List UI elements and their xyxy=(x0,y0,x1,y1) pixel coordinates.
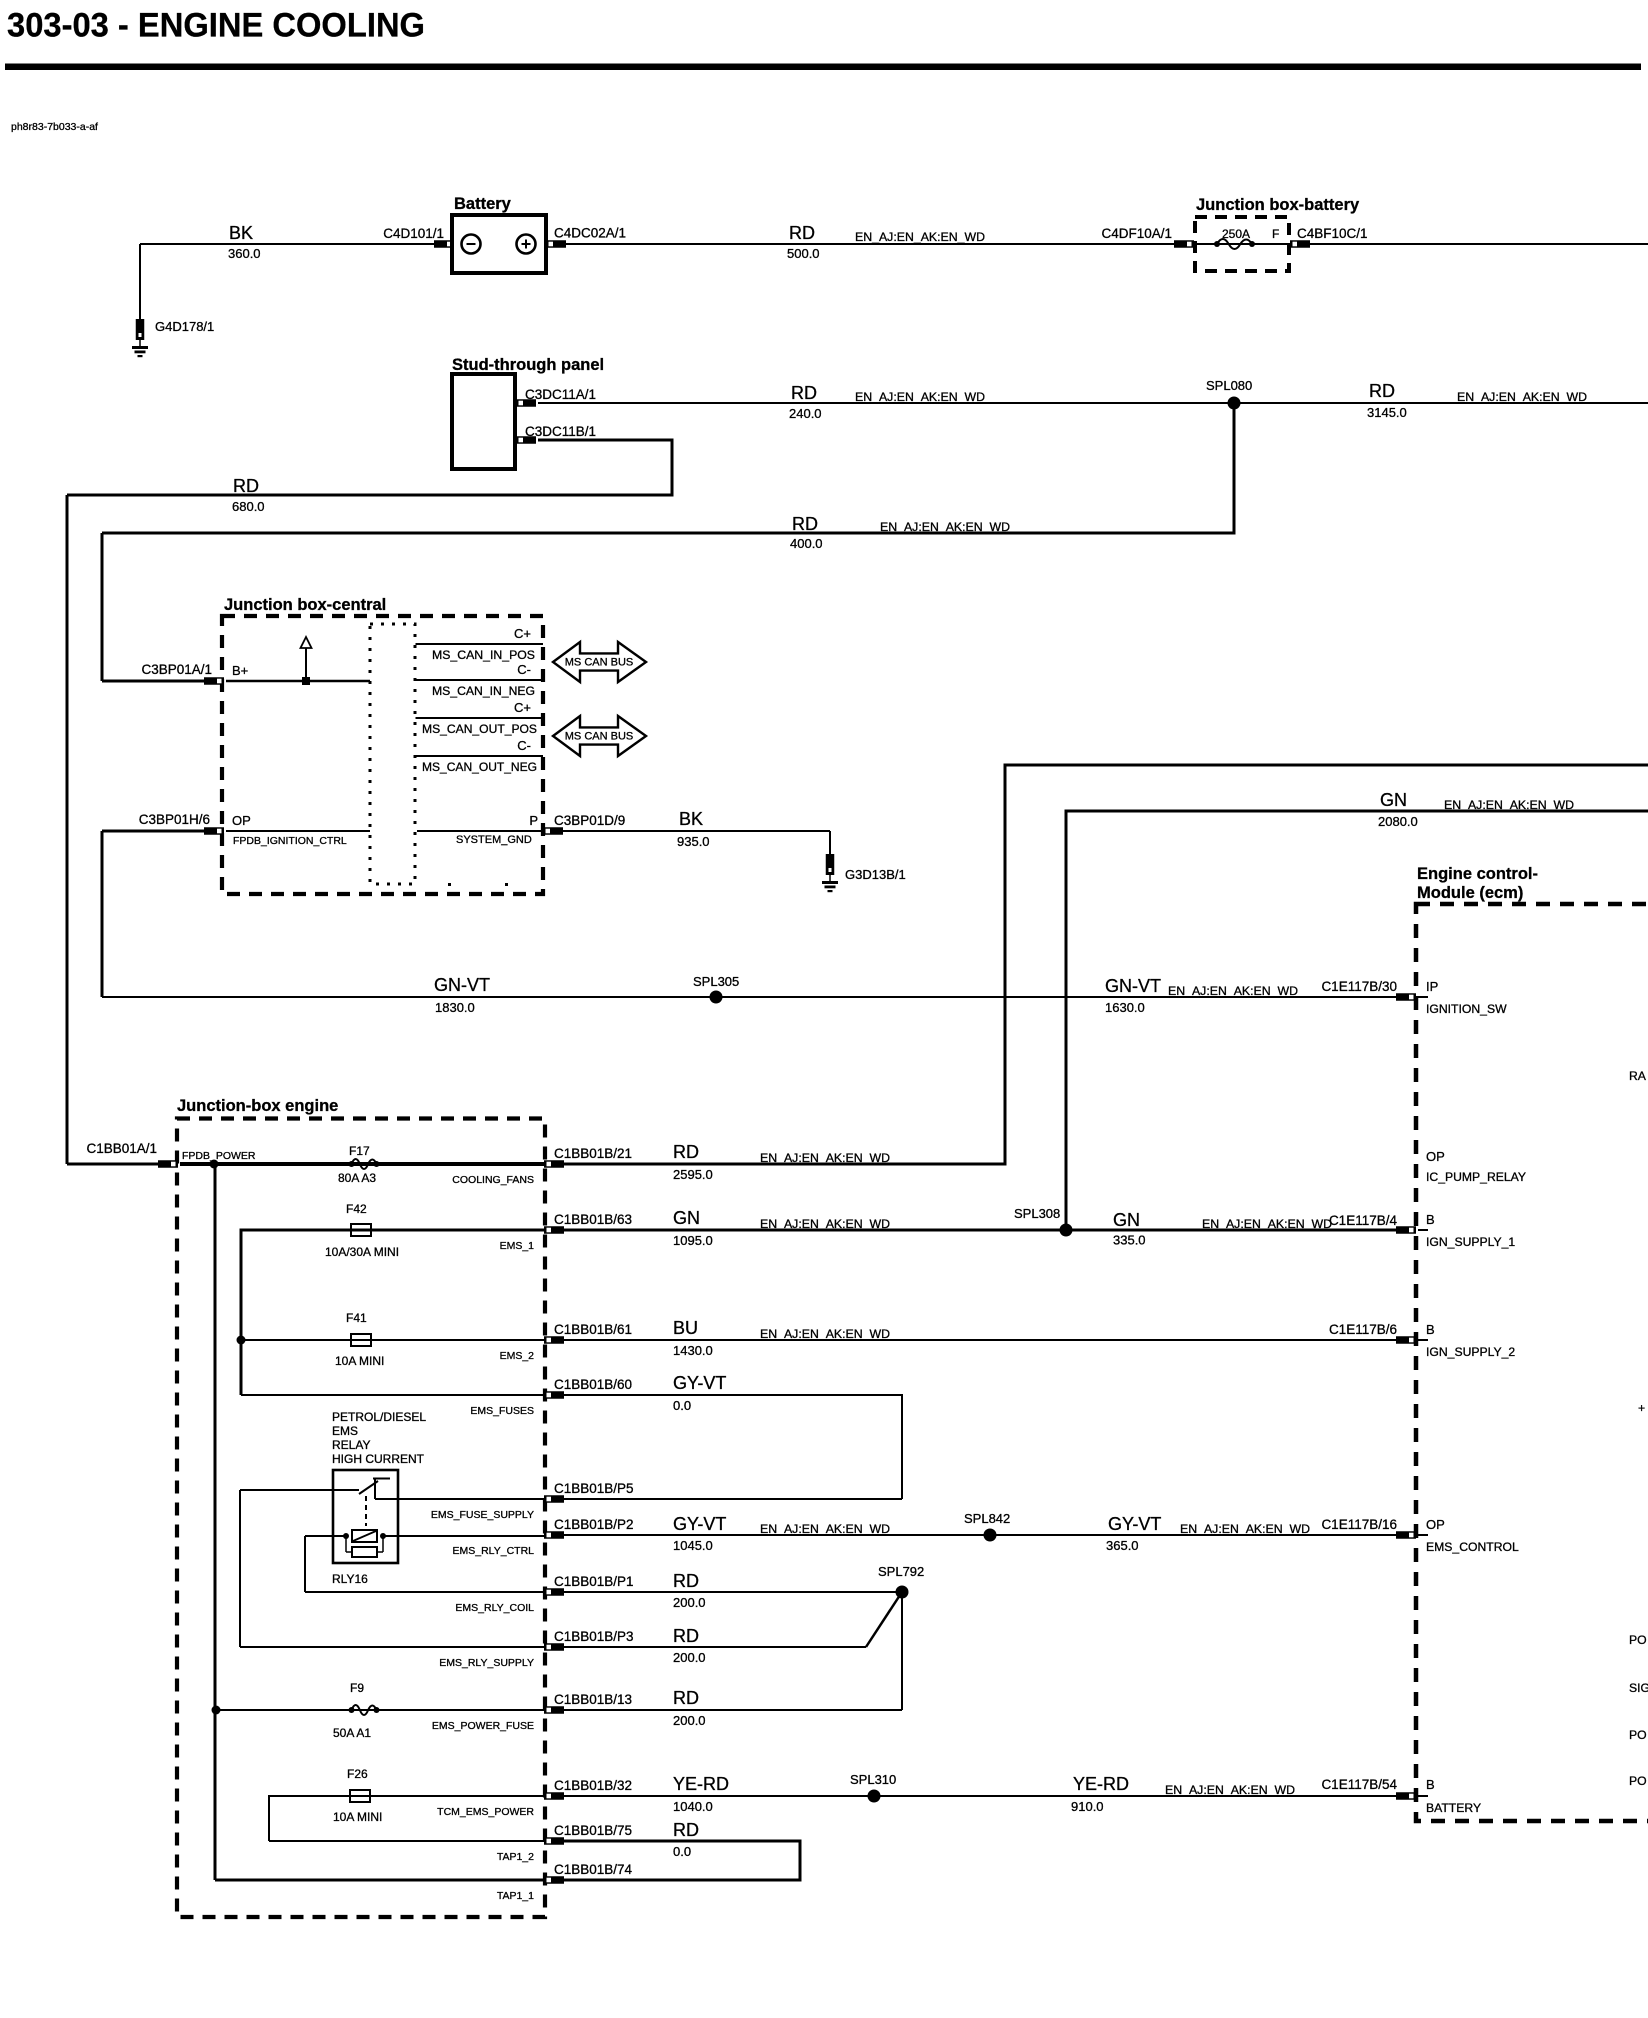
svg-text:IGNITION_SW: IGNITION_SW xyxy=(1426,1002,1507,1016)
svg-text:SPL305: SPL305 xyxy=(693,974,739,989)
svg-text:335.0: 335.0 xyxy=(1113,1233,1146,1248)
svg-text:RD: RD xyxy=(673,1688,699,1708)
svg-text:EMS_RLY_COIL: EMS_RLY_COIL xyxy=(455,1602,534,1614)
svg-text:200.0: 200.0 xyxy=(673,1650,706,1665)
svg-text:F: F xyxy=(1272,227,1279,241)
svg-text:1095.0: 1095.0 xyxy=(673,1233,713,1248)
svg-text:C4DF10A/1: C4DF10A/1 xyxy=(1101,226,1172,241)
svg-text:G3D13B/1: G3D13B/1 xyxy=(845,867,906,882)
svg-text:C1BB01B/60: C1BB01B/60 xyxy=(554,1377,632,1392)
svg-text:BK: BK xyxy=(229,223,253,243)
svg-text:GN: GN xyxy=(1113,1210,1140,1230)
svg-text:EMS_RLY_SUPPLY: EMS_RLY_SUPPLY xyxy=(439,1657,534,1669)
svg-text:2080.0: 2080.0 xyxy=(1378,814,1418,829)
svg-text:RELAY: RELAY xyxy=(332,1438,370,1452)
svg-text:C1E117B/4: C1E117B/4 xyxy=(1329,1213,1398,1228)
svg-text:C1BB01B/63: C1BB01B/63 xyxy=(554,1212,632,1227)
svg-text:YE-RD: YE-RD xyxy=(673,1774,729,1794)
svg-text:C3BP01D/9: C3BP01D/9 xyxy=(554,813,625,828)
svg-text:EN_AJ:EN_AK:EN_WD: EN_AJ:EN_AK:EN_WD xyxy=(855,390,985,404)
svg-text:Engine control-: Engine control- xyxy=(1417,865,1538,883)
svg-text:F9: F9 xyxy=(350,1681,364,1695)
svg-text:EMS_POWER_FUSE: EMS_POWER_FUSE xyxy=(432,1720,534,1732)
svg-text:Battery: Battery xyxy=(454,195,512,213)
svg-text:MS_CAN_IN_NEG: MS_CAN_IN_NEG xyxy=(432,684,535,698)
svg-text:C1BB01B/74: C1BB01B/74 xyxy=(554,1862,633,1877)
svg-text:RD: RD xyxy=(673,1571,699,1591)
svg-text:TAP1_2: TAP1_2 xyxy=(497,1851,534,1863)
svg-text:Junction box-central: Junction box-central xyxy=(224,596,386,614)
svg-text:PETROL/DIESEL: PETROL/DIESEL xyxy=(332,1410,426,1424)
svg-text:SPL792: SPL792 xyxy=(878,1564,924,1579)
svg-text:EMS_2: EMS_2 xyxy=(500,1350,535,1362)
svg-text:MS_CAN_OUT_POS: MS_CAN_OUT_POS xyxy=(422,722,537,736)
svg-text:SPL310: SPL310 xyxy=(850,1772,896,1787)
svg-text:GN-VT: GN-VT xyxy=(1105,976,1161,996)
svg-text:C1BB01B/75: C1BB01B/75 xyxy=(554,1823,632,1838)
svg-text:EN_AJ:EN_AK:EN_WD: EN_AJ:EN_AK:EN_WD xyxy=(855,230,985,244)
svg-text:C1BB01A/1: C1BB01A/1 xyxy=(86,1141,157,1156)
svg-text:RD: RD xyxy=(673,1820,699,1840)
svg-text:C-: C- xyxy=(517,738,531,753)
svg-text:C1BB01B/P5: C1BB01B/P5 xyxy=(554,1481,634,1496)
svg-text:0.0: 0.0 xyxy=(673,1398,691,1413)
svg-text:RD: RD xyxy=(789,223,815,243)
svg-text:IP: IP xyxy=(1426,979,1438,994)
svg-text:C3BP01A/1: C3BP01A/1 xyxy=(141,662,212,677)
svg-text:BK: BK xyxy=(679,809,703,829)
svg-text:IGN_SUPPLY_1: IGN_SUPPLY_1 xyxy=(1426,1235,1515,1249)
svg-text:RLY16: RLY16 xyxy=(332,1572,368,1586)
svg-text:3145.0: 3145.0 xyxy=(1367,405,1407,420)
svg-text:Stud-through panel: Stud-through panel xyxy=(452,356,604,374)
svg-text:SYSTEM_GND: SYSTEM_GND xyxy=(456,834,532,846)
svg-text:EN_AJ:EN_AK:EN_WD: EN_AJ:EN_AK:EN_WD xyxy=(1180,1522,1310,1536)
svg-text:C-: C- xyxy=(517,662,531,677)
svg-text:PO: PO xyxy=(1629,1728,1647,1742)
svg-text:MS_CAN_IN_POS: MS_CAN_IN_POS xyxy=(432,648,535,662)
svg-text:C3BP01H/6: C3BP01H/6 xyxy=(139,812,210,827)
svg-text:1045.0: 1045.0 xyxy=(673,1538,713,1553)
svg-text:SPL080: SPL080 xyxy=(1206,378,1252,393)
svg-text:250A: 250A xyxy=(1222,227,1250,241)
svg-text:F26: F26 xyxy=(347,1767,368,1781)
svg-text:B: B xyxy=(1426,1777,1435,1792)
svg-text:10A MINI: 10A MINI xyxy=(335,1354,384,1368)
svg-text:500.0: 500.0 xyxy=(787,246,820,261)
svg-text:B+: B+ xyxy=(232,663,248,678)
svg-text:GN: GN xyxy=(1380,790,1407,810)
svg-text:BATTERY: BATTERY xyxy=(1426,1801,1481,1815)
svg-text:C4BF10C/1: C4BF10C/1 xyxy=(1297,226,1368,241)
svg-text:TCM_EMS_POWER: TCM_EMS_POWER xyxy=(437,1806,534,1818)
svg-text:400.0: 400.0 xyxy=(790,536,823,551)
svg-text:F17: F17 xyxy=(349,1144,370,1158)
svg-text:BU: BU xyxy=(673,1318,698,1338)
svg-text:EN_AJ:EN_AK:EN_WD: EN_AJ:EN_AK:EN_WD xyxy=(760,1522,890,1536)
svg-text:OP: OP xyxy=(1426,1517,1445,1532)
svg-text:C+: C+ xyxy=(514,700,531,715)
svg-text:80A A3: 80A A3 xyxy=(338,1171,376,1185)
svg-text:GY-VT: GY-VT xyxy=(1108,1514,1161,1534)
svg-text:COOLING_FANS: COOLING_FANS xyxy=(452,1174,534,1186)
svg-text:RD: RD xyxy=(792,514,818,534)
svg-text:F41: F41 xyxy=(346,1311,367,1325)
svg-text:2595.0: 2595.0 xyxy=(673,1167,713,1182)
svg-text:Junction box-battery: Junction box-battery xyxy=(1196,196,1360,214)
svg-text:IC_PUMP_RELAY: IC_PUMP_RELAY xyxy=(1426,1170,1526,1184)
svg-text:EN_AJ:EN_AK:EN_WD: EN_AJ:EN_AK:EN_WD xyxy=(760,1151,890,1165)
svg-text:200.0: 200.0 xyxy=(673,1595,706,1610)
svg-text:Junction-box engine: Junction-box engine xyxy=(177,1097,338,1115)
svg-text:EN_AJ:EN_AK:EN_WD: EN_AJ:EN_AK:EN_WD xyxy=(1165,1783,1295,1797)
svg-text:C1BB01B/21: C1BB01B/21 xyxy=(554,1146,632,1161)
svg-text:50A A1: 50A A1 xyxy=(333,1726,371,1740)
svg-text:10A/30A MINI: 10A/30A MINI xyxy=(325,1245,399,1259)
svg-text:EN_AJ:EN_AK:EN_WD: EN_AJ:EN_AK:EN_WD xyxy=(1202,1217,1332,1231)
svg-text:C1E117B/54: C1E117B/54 xyxy=(1321,1777,1397,1792)
svg-text:EMS_FUSES: EMS_FUSES xyxy=(470,1405,534,1417)
svg-text:OP: OP xyxy=(1426,1149,1445,1164)
svg-text:EN_AJ:EN_AK:EN_WD: EN_AJ:EN_AK:EN_WD xyxy=(760,1217,890,1231)
svg-text:0.0: 0.0 xyxy=(673,1844,691,1859)
svg-text:FPDB_IGNITION_CTRL: FPDB_IGNITION_CTRL xyxy=(233,835,347,847)
svg-text:RD: RD xyxy=(673,1142,699,1162)
svg-text:EN_AJ:EN_AK:EN_WD: EN_AJ:EN_AK:EN_WD xyxy=(880,520,1010,534)
svg-text:FPDB_POWER: FPDB_POWER xyxy=(182,1150,256,1162)
svg-text:YE-RD: YE-RD xyxy=(1073,1774,1129,1794)
svg-text:GY-VT: GY-VT xyxy=(673,1514,726,1534)
svg-text:GY-VT: GY-VT xyxy=(673,1373,726,1393)
svg-text:1630.0: 1630.0 xyxy=(1105,1000,1145,1015)
svg-text:B: B xyxy=(1426,1212,1435,1227)
svg-text:C1BB01B/P2: C1BB01B/P2 xyxy=(554,1517,634,1532)
svg-text:200.0: 200.0 xyxy=(673,1713,706,1728)
svg-text:240.0: 240.0 xyxy=(789,406,822,421)
svg-text:C1BB01B/P3: C1BB01B/P3 xyxy=(554,1629,634,1644)
svg-text:RA: RA xyxy=(1629,1069,1647,1083)
svg-text:SPL842: SPL842 xyxy=(964,1511,1010,1526)
svg-text:C1E117B/16: C1E117B/16 xyxy=(1321,1517,1397,1532)
svg-text:ph8r83-7b033-a-af: ph8r83-7b033-a-af xyxy=(11,121,98,133)
svg-text:MS CAN BUS: MS CAN BUS xyxy=(565,731,633,743)
svg-text:303-03 - ENGINE COOLING: 303-03 - ENGINE COOLING xyxy=(7,7,425,45)
svg-text:RD: RD xyxy=(791,383,817,403)
svg-text:P: P xyxy=(529,813,538,828)
svg-text:910.0: 910.0 xyxy=(1071,1799,1104,1814)
svg-text:MS CAN BUS: MS CAN BUS xyxy=(565,657,633,669)
svg-text:C4DC02A/1: C4DC02A/1 xyxy=(554,226,626,241)
svg-text:EN_AJ:EN_AK:EN_WD: EN_AJ:EN_AK:EN_WD xyxy=(1457,390,1587,404)
svg-text:EN_AJ:EN_AK:EN_WD: EN_AJ:EN_AK:EN_WD xyxy=(760,1327,890,1341)
svg-text:360.0: 360.0 xyxy=(228,246,261,261)
svg-text:F42: F42 xyxy=(346,1202,367,1216)
svg-text:RD: RD xyxy=(1369,381,1395,401)
svg-text:935.0: 935.0 xyxy=(677,834,710,849)
svg-text:C1BB01B/P1: C1BB01B/P1 xyxy=(554,1574,634,1589)
svg-text:PO: PO xyxy=(1629,1633,1647,1647)
svg-text:C1BB01B/32: C1BB01B/32 xyxy=(554,1778,632,1793)
svg-text:Module (ecm): Module (ecm) xyxy=(1417,884,1523,902)
svg-text:EN_AJ:EN_AK:EN_WD: EN_AJ:EN_AK:EN_WD xyxy=(1168,984,1298,998)
svg-text:C1BB01B/61: C1BB01B/61 xyxy=(554,1322,632,1337)
svg-text:C1BB01B/13: C1BB01B/13 xyxy=(554,1692,632,1707)
svg-text:C1E117B/6: C1E117B/6 xyxy=(1329,1322,1397,1337)
svg-text:GN: GN xyxy=(673,1208,700,1228)
svg-text:C4D101/1: C4D101/1 xyxy=(383,226,444,241)
svg-text:RD: RD xyxy=(673,1626,699,1646)
svg-text:B: B xyxy=(1426,1322,1435,1337)
svg-text:C+: C+ xyxy=(514,626,531,641)
svg-text:10A MINI: 10A MINI xyxy=(333,1810,382,1824)
svg-text:RD: RD xyxy=(233,476,259,496)
svg-text:EMS_CONTROL: EMS_CONTROL xyxy=(1426,1540,1519,1554)
svg-text:C1E117B/30: C1E117B/30 xyxy=(1321,979,1397,994)
svg-text:G4D178/1: G4D178/1 xyxy=(155,319,214,334)
svg-text:EMS: EMS xyxy=(332,1424,358,1438)
svg-text:680.0: 680.0 xyxy=(232,499,265,514)
svg-text:TAP1_1: TAP1_1 xyxy=(497,1890,534,1902)
svg-text:C3DC11B/1: C3DC11B/1 xyxy=(525,424,596,439)
svg-text:+: + xyxy=(1638,1401,1645,1415)
svg-text:SPL308: SPL308 xyxy=(1014,1206,1060,1221)
svg-text:365.0: 365.0 xyxy=(1106,1538,1139,1553)
svg-text:EN_AJ:EN_AK:EN_WD: EN_AJ:EN_AK:EN_WD xyxy=(1444,798,1574,812)
svg-text:1830.0: 1830.0 xyxy=(435,1000,475,1015)
svg-text:IGN_SUPPLY_2: IGN_SUPPLY_2 xyxy=(1426,1345,1515,1359)
svg-text:SIG: SIG xyxy=(1629,1681,1648,1695)
svg-text:1040.0: 1040.0 xyxy=(673,1799,713,1814)
svg-text:MS_CAN_OUT_NEG: MS_CAN_OUT_NEG xyxy=(422,760,537,774)
svg-text:OP: OP xyxy=(232,813,251,828)
svg-text:EMS_RLY_CTRL: EMS_RLY_CTRL xyxy=(453,1545,535,1557)
svg-text:GN-VT: GN-VT xyxy=(434,975,490,995)
svg-text:HIGH CURRENT: HIGH CURRENT xyxy=(332,1452,425,1466)
svg-text:PO: PO xyxy=(1629,1774,1647,1788)
svg-text:EMS_FUSE_SUPPLY: EMS_FUSE_SUPPLY xyxy=(431,1509,534,1521)
svg-text:1430.0: 1430.0 xyxy=(673,1343,713,1358)
svg-text:C3DC11A/1: C3DC11A/1 xyxy=(525,387,596,402)
svg-text:EMS_1: EMS_1 xyxy=(500,1240,535,1252)
